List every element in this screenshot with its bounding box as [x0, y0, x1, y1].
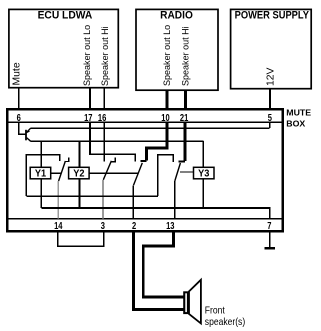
- ground symbol: [265, 247, 275, 249]
- relay Y1 coil box: [30, 167, 51, 179]
- switch B fixed contact hook: [111, 157, 116, 161]
- wire pin 16 down to switch B contact: [103, 122, 105, 162]
- link rail connecting switch A and D contact feeds: [26, 195, 158, 197]
- svg-text:14: 14: [54, 220, 63, 231]
- switch C blade: [134, 163, 143, 185]
- switch A blade: [59, 161, 66, 181]
- svg-text:13: 13: [166, 220, 174, 231]
- svg-text:POWER SUPPLY: POWER SUPPLY: [235, 10, 309, 22]
- svg-text:ECU LDWA: ECU LDWA: [38, 9, 93, 22]
- svg-text:Y2: Y2: [73, 168, 85, 180]
- relay Y2 coil box: [69, 167, 90, 179]
- MUTE BOX outline: [7, 109, 283, 231]
- wire pin 17 to switch C alternate contact: [90, 122, 135, 162]
- svg-text:10: 10: [161, 112, 169, 123]
- svg-text:MUTE: MUTE: [286, 108, 311, 118]
- switch A pivot link to pin 14 (grey): [57, 181, 59, 219]
- wire pin 6 to transistor base: [19, 122, 26, 134]
- bold radio Lo path: pin 10 to switch C contact: [147, 122, 167, 160]
- wire collector rail to Y1 coil top: [40, 141, 42, 167]
- wire Y2 coil bottom to ground rail: [79, 179, 81, 208]
- bold wire pin 2 to front speaker (lower lead): [134, 232, 184, 310]
- inner line above bottom pin row: [9, 218, 282, 220]
- transistor Q1 (PNP) base bar: [25, 130, 27, 141]
- svg-text:5: 5: [268, 112, 272, 123]
- switch D blade: [175, 163, 181, 181]
- svg-text:21: 21: [180, 112, 188, 123]
- bold wire pin 13 to front speaker (upper lead): [143, 232, 183, 297]
- svg-text:Front: Front: [205, 305, 225, 316]
- wire POWER SUPPLY 12V to mute box pin 5: [269, 89, 271, 109]
- wire ECU Mute to mute box pin 6: [18, 88, 20, 109]
- svg-text:2: 2: [132, 220, 136, 231]
- front speaker symbol: driver: [183, 291, 189, 314]
- relay Y1 actuating link to switch A blade: [51, 172, 62, 174]
- ground rail for relay coils: [41, 208, 269, 219]
- wire RADIO Speaker out Lo to mute box pin 10 (bold): [166, 90, 169, 108]
- MUTE BOX label: [286, 108, 311, 129]
- svg-text:17: 17: [84, 112, 92, 123]
- relay Y3 actuating link to switch D blade: [180, 171, 194, 173]
- svg-text:6: 6: [17, 112, 21, 123]
- external loop wire joining pins 14 and 3: [58, 232, 104, 246]
- relay Y2 actuating link across switch B to switch C blade: [89, 172, 138, 174]
- svg-text:Speaker out Lo: Speaker out Lo: [162, 25, 172, 86]
- contact feed for switch D from link rail: [158, 155, 173, 197]
- inner line below top pin row: [9, 121, 282, 123]
- switch D bold contact foot: [178, 160, 185, 162]
- wire ECU Speaker out Hi to mute box pin 16: [103, 88, 105, 109]
- transistor Q1 collector branch: [27, 138, 31, 142]
- svg-text:RADIO: RADIO: [160, 9, 193, 22]
- switch B pivot link to pin 3 (grey): [102, 180, 104, 219]
- wire pin 7 to ground: [269, 232, 271, 247]
- front speaker symbol: cone: [189, 280, 201, 324]
- svg-text:Speaker out Lo: Speaker out Lo: [82, 25, 92, 86]
- label Front speaker(s): [205, 305, 245, 327]
- wire ECU Speaker out Lo to mute box pin 17: [89, 88, 91, 109]
- transistor Q1 emitter branch with arrow: [27, 128, 31, 132]
- wire Y1 coil bottom to ground rail: [40, 179, 42, 208]
- switch C bold contact foot: [140, 160, 146, 162]
- RADIO box: [136, 9, 218, 90]
- relay Y3 coil box: [194, 167, 215, 179]
- svg-text:Y3: Y3: [198, 168, 210, 180]
- svg-text:3: 3: [101, 220, 105, 231]
- svg-text:7: 7: [267, 220, 271, 231]
- svg-text:Speaker out Hi: Speaker out Hi: [180, 26, 190, 86]
- POWER SUPPLY box: [231, 9, 312, 88]
- wire RADIO Speaker out Hi to mute box pin 21 (bold): [184, 90, 187, 108]
- svg-text:Y1: Y1: [35, 168, 47, 180]
- svg-text:BOX: BOX: [286, 119, 305, 129]
- switch A fixed contact hook: [65, 157, 69, 161]
- emitter rail (12V): [30, 127, 269, 129]
- svg-text:Mute: Mute: [12, 62, 23, 85]
- wire collector rail end down to Y3 coil top: [202, 141, 204, 167]
- bold radio Hi path: pin 21 to switch D contact: [183, 122, 186, 161]
- wire collector rail to Y2 coil top: [79, 141, 81, 167]
- svg-text:Speaker out Hi: Speaker out Hi: [100, 26, 110, 86]
- svg-text:12V: 12V: [266, 67, 277, 86]
- switch D pivot wire to pin 13: [174, 181, 176, 219]
- ECU LDWA box: [9, 9, 118, 87]
- svg-text:16: 16: [98, 112, 106, 123]
- wire pin 5 down to emitter rail: [269, 122, 271, 128]
- switch C pivot wire to pin 2: [132, 186, 134, 219]
- contact feed bracket for switch A (from link rail): [26, 155, 60, 197]
- switch B blade: [103, 161, 111, 180]
- svg-text:speaker(s): speaker(s): [205, 316, 245, 327]
- collector rail: [30, 140, 203, 142]
- wire Y3 coil bottom to ground rail: [202, 179, 204, 208]
